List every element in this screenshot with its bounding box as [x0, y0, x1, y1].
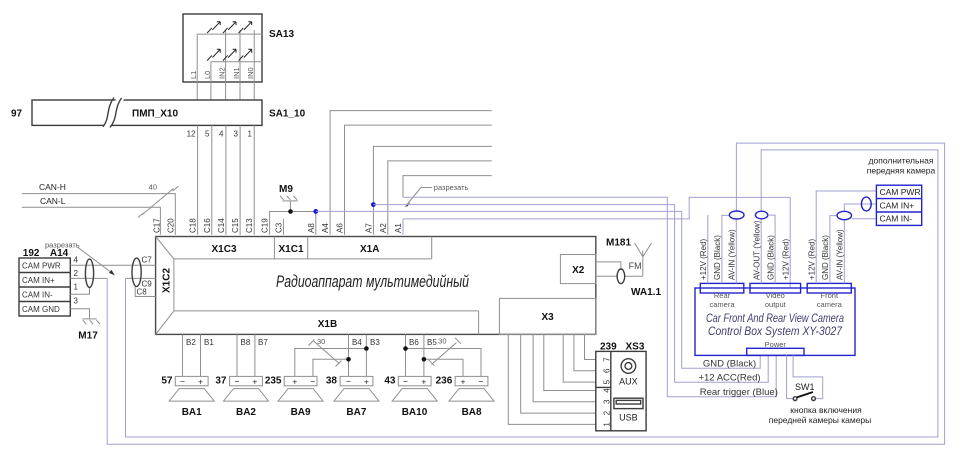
svg-text:IN1: IN1 [232, 67, 241, 79]
svg-text:разрезать: разрезать [45, 241, 80, 250]
svg-text:38: 38 [326, 376, 338, 387]
wire A8 [315, 211, 317, 234]
node B6 junction [403, 346, 408, 351]
svg-text:4: 4 [219, 130, 224, 139]
wire rear AV-IN [735, 219, 737, 283]
svg-text:M181: M181 [606, 238, 631, 249]
label additional front camera [867, 156, 936, 176]
connector X3 [499, 298, 595, 334]
wire video output route (C9 to control box AV-OUT) [126, 150, 938, 437]
wire CAM PWR to C7 [70, 264, 155, 266]
svg-text:B1: B1 [204, 338, 214, 347]
svg-text:L1: L1 [189, 71, 198, 79]
svg-text:−: − [346, 376, 351, 386]
svg-text:5: 5 [205, 130, 210, 139]
connector power [747, 340, 804, 355]
label razrezat top [405, 183, 469, 207]
svg-text:X1B: X1B [318, 319, 337, 330]
svg-text:Control Box System XY-3027: Control Box System XY-3027 [708, 326, 843, 338]
svg-text:CAM PWR: CAM PWR [880, 187, 921, 197]
svg-text:30: 30 [438, 337, 446, 346]
switch block SA13 [183, 14, 294, 82]
svg-text:A8: A8 [307, 223, 316, 233]
svg-text:C18: C18 [189, 218, 198, 233]
wire X3 pin to XS3 pin7 [585, 334, 596, 359]
wire A7 cut [373, 146, 491, 234]
svg-text:1: 1 [74, 283, 79, 292]
wire GND route A8 to control box power [316, 211, 760, 368]
svg-text:GND (Black): GND (Black) [703, 358, 756, 369]
svg-text:Car Front And Rear View Camera: Car Front And Rear View Camera [706, 313, 844, 325]
multimedia radio unit box [156, 237, 596, 335]
node A8 tap [313, 209, 318, 214]
svg-text:BA7: BA7 [346, 407, 366, 418]
svg-text:BA9: BA9 [291, 407, 311, 418]
svg-text:BA1: BA1 [182, 407, 202, 418]
node B5 junction [422, 357, 427, 362]
twisted pair marker 30 right [429, 337, 462, 366]
wire A4 cut [330, 111, 492, 235]
svg-text:X1C1: X1C1 [278, 244, 303, 255]
wire B5 tap to BA8 plus [424, 359, 463, 376]
svg-text:output: output [765, 300, 787, 309]
speaker BA10 [384, 376, 437, 419]
svg-text:CAM PWR: CAM PWR [22, 261, 61, 270]
svg-text:+: + [292, 376, 297, 386]
switch contact SA13 top row 1 [207, 22, 220, 33]
svg-text:40: 40 [149, 183, 157, 192]
wire X3 pin to XS3 pin1 [508, 334, 596, 424]
svg-text:IN0: IN0 [246, 67, 255, 79]
svg-text:192: 192 [23, 248, 40, 259]
svg-text:X2: X2 [572, 265, 585, 276]
wire C3 stub [282, 219, 284, 235]
svg-text:передней камеры камеры: передней камеры камеры [769, 415, 872, 425]
camera connector A14 [19, 258, 70, 316]
node A7 tap [371, 202, 376, 207]
wire rear camera video route (A14 to control box AV-IN) [107, 143, 944, 444]
svg-text:SA1_10: SA1_10 [269, 109, 306, 120]
connector plug FM ellipse [617, 269, 625, 284]
svg-text:CAM GND: CAM GND [22, 305, 60, 314]
svg-text:GND (Black): GND (Black) [821, 235, 830, 280]
svg-text:дополнительная: дополнительная [869, 156, 934, 166]
svg-text:WA1.1: WA1.1 [631, 287, 661, 298]
wire CAN-L to C17 [22, 207, 161, 235]
svg-text:236: 236 [436, 376, 453, 387]
wire IN1 [239, 30, 241, 100]
antenna WA1.1 [635, 243, 652, 276]
svg-text:BA10: BA10 [402, 407, 428, 418]
wire CAM GND to M17 [70, 309, 89, 319]
svg-text:57: 57 [161, 376, 173, 387]
wire B7 to BA2 [254, 334, 256, 376]
svg-text:+12V (Red): +12V (Red) [781, 239, 790, 280]
svg-text:B4: B4 [352, 338, 362, 347]
svg-text:+12V (Red): +12V (Red) [807, 239, 816, 280]
label razrezat left [45, 241, 115, 276]
connector rear camera [700, 283, 744, 309]
wire rear +12V stub [707, 215, 709, 283]
svg-text:BA8: BA8 [462, 407, 482, 418]
svg-text:IN2: IN2 [218, 67, 227, 79]
speaker BA8 [436, 376, 494, 419]
svg-text:C16: C16 [203, 218, 212, 233]
svg-text:3: 3 [74, 297, 79, 306]
svg-text:−: − [403, 376, 408, 386]
ground M9 [279, 184, 298, 211]
svg-text:A6: A6 [336, 223, 345, 233]
wire CAM IN- to plug shell [70, 288, 89, 295]
svg-text:XS3: XS3 [626, 342, 645, 353]
svg-text:C7: C7 [142, 256, 153, 265]
svg-text:кнопка включения: кнопка включения [790, 405, 862, 415]
wire C14 from PMP [225, 125, 227, 234]
twisted pair marker 40 [138, 183, 179, 218]
svg-text:B3: B3 [370, 338, 380, 347]
svg-text:12: 12 [187, 130, 196, 139]
wire B6 tap to BA8 minus [406, 349, 482, 377]
connector video output [750, 283, 801, 309]
svg-text:C8: C8 [137, 288, 148, 297]
svg-text:C20: C20 [167, 218, 176, 233]
svg-text:+: + [364, 376, 369, 386]
wire rear GND [722, 215, 730, 283]
svg-text:camera: camera [709, 300, 735, 309]
wire front AV plug to CAM IN+ [844, 204, 876, 211]
svg-text:+: + [252, 376, 257, 386]
svg-text:7: 7 [603, 357, 612, 362]
svg-text:1: 1 [603, 422, 612, 427]
wire antenna plug to antenna [625, 275, 643, 277]
svg-text:30: 30 [317, 337, 325, 346]
svg-text:5: 5 [603, 379, 612, 384]
switch contact SA13 top row 3 [239, 22, 252, 33]
wire X2 shield to antenna plug [596, 275, 617, 277]
svg-text:C17: C17 [153, 218, 162, 233]
connector plug front AV ellipse [837, 211, 851, 219]
svg-text:C15: C15 [231, 218, 240, 233]
svg-text:FM: FM [629, 261, 642, 271]
svg-text:4: 4 [603, 388, 612, 393]
wire C16 from PMP [211, 125, 213, 234]
AUX jack [619, 359, 638, 387]
svg-text:4: 4 [74, 256, 79, 265]
connector XS3 [596, 342, 646, 431]
additional front camera box [876, 185, 921, 225]
svg-text:+: + [198, 376, 203, 386]
connector PMP_X10 [32, 97, 262, 127]
wire +12V feed A1 pin to video connector [403, 197, 790, 288]
svg-text:camera: camera [817, 300, 843, 309]
switch SW1 [793, 382, 815, 401]
wire CAM IN- to plug shell [852, 218, 877, 220]
wire B5 to BA10 [423, 334, 425, 376]
camera control box XY-3027 [695, 288, 855, 355]
svg-text:BA2: BA2 [236, 407, 256, 418]
svg-text:3: 3 [603, 399, 612, 404]
wire A6 cut [345, 125, 492, 235]
svg-text:CAM IN-: CAM IN- [22, 290, 53, 299]
wire L1 [196, 34, 198, 100]
svg-text:3: 3 [234, 130, 239, 139]
svg-text:−: − [180, 376, 185, 386]
connector X2 [560, 255, 596, 284]
svg-text:2: 2 [74, 269, 79, 278]
wire CAM IN+ A14 side [70, 277, 107, 279]
wire X3 pin to XS3 pin5 [563, 334, 596, 382]
svg-text:37: 37 [215, 376, 227, 387]
svg-text:+12 ACC(Red): +12 ACC(Red) [698, 373, 760, 384]
svg-text:M17: M17 [78, 331, 98, 342]
switch contact SA13 bottom row 1 [207, 49, 220, 60]
svg-text:разрезать: разрезать [434, 183, 469, 192]
node B3 junction [364, 346, 369, 351]
svg-text:C14: C14 [217, 218, 226, 233]
svg-text:B8: B8 [241, 338, 251, 347]
svg-text:CAM IN-: CAM IN- [880, 214, 913, 224]
svg-text:B5: B5 [427, 338, 437, 347]
speaker BA9 [265, 376, 323, 419]
speaker BA7 [326, 376, 379, 419]
speaker BA1 [161, 376, 214, 419]
svg-text:SW1: SW1 [795, 382, 815, 392]
svg-text:B2: B2 [186, 338, 196, 347]
svg-text:C19: C19 [261, 218, 270, 233]
connector plug CAM IN+ ellipse [861, 197, 871, 211]
svg-text:CAN-H: CAN-H [39, 182, 66, 192]
wire C18 from PMP [197, 125, 199, 234]
svg-text:CAN-L: CAN-L [40, 196, 66, 206]
switch contact SA13 bottom row 2 [223, 49, 236, 60]
connector plug A14 ellipse [85, 259, 93, 287]
wire L0 bus [211, 61, 262, 63]
wire B2 to BA1 [182, 334, 184, 376]
svg-text:X1A: X1A [360, 244, 379, 255]
wire B3 to BA7 [365, 334, 367, 376]
wire C8 shield to connector [135, 287, 155, 297]
wire front AV-IN [843, 220, 845, 284]
wire front GND [830, 216, 837, 284]
wire power to SW1 right [793, 355, 823, 398]
wire B4 tap to BA9 minus [313, 359, 349, 376]
node M9-C19 junction [288, 209, 293, 214]
label front camera button [769, 405, 872, 425]
svg-text:−: − [479, 376, 484, 386]
wire B4 to BA7 [348, 334, 350, 376]
svg-text:+12V (Red): +12V (Red) [699, 239, 708, 280]
svg-text:1: 1 [248, 130, 253, 139]
speaker BA2 [215, 376, 268, 419]
svg-text:AUX: AUX [619, 377, 638, 387]
wire IN0 [253, 30, 255, 100]
switch contact SA13 top row 2 [223, 22, 236, 33]
svg-text:A1: A1 [394, 223, 403, 233]
USB port [614, 398, 643, 422]
svg-text:X1C3: X1C3 [211, 244, 236, 255]
wire X3 pin to XS3 pin2 [521, 334, 596, 413]
svg-text:X3: X3 [541, 312, 554, 323]
svg-text:−: − [235, 376, 240, 386]
svg-text:Rear: Rear [714, 291, 731, 300]
svg-text:2: 2 [603, 410, 612, 415]
svg-text:−: − [310, 376, 315, 386]
wire +12ACC route A7 to control box power [373, 205, 768, 383]
svg-text:A2: A2 [379, 223, 388, 233]
wire A1 harness cut [403, 176, 492, 198]
connector front camera [807, 283, 851, 309]
svg-text:+: + [461, 376, 466, 386]
svg-text:A7: A7 [364, 223, 373, 233]
svg-text:Video: Video [766, 291, 785, 300]
wire C9 radio side [126, 277, 156, 279]
wire L0 [210, 62, 212, 100]
wire C15 from PMP [239, 125, 241, 234]
svg-text:235: 235 [265, 376, 282, 387]
svg-text:239: 239 [600, 342, 617, 353]
svg-text:AV-OUT (Yellow): AV-OUT (Yellow) [752, 220, 761, 280]
svg-text:Rear trigger (Blue): Rear trigger (Blue) [700, 387, 778, 398]
wire B6 to BA10 [405, 334, 407, 376]
svg-text:CAM IN+: CAM IN+ [880, 200, 915, 210]
wire video AV-OUT [760, 219, 762, 284]
svg-text:B7: B7 [258, 338, 268, 347]
svg-text:Радиоаппарат мультимедийный: Радиоаппарат мультимедийный [276, 272, 469, 291]
wire C19 to M9 net [270, 212, 316, 235]
svg-text:USB: USB [619, 413, 638, 423]
svg-text:CAM IN+: CAM IN+ [22, 276, 55, 285]
svg-text:+: + [421, 376, 426, 386]
svg-text:6: 6 [603, 368, 612, 373]
switch contact SA13 bottom row 3 [239, 49, 252, 60]
svg-text:AV-IN (Yellow): AV-IN (Yellow) [728, 229, 737, 280]
svg-text:97: 97 [11, 109, 23, 120]
wire X3 pin to XS3 pin4 [544, 334, 596, 390]
wire L1 bus [197, 33, 262, 35]
svg-text:43: 43 [384, 376, 396, 387]
svg-text:X1C2: X1C2 [162, 268, 173, 293]
twisted pair marker 30 left [309, 337, 342, 367]
wire IN2 [225, 30, 227, 100]
wire video GND [768, 215, 775, 283]
connector plug rear AV ellipse [729, 211, 744, 219]
wire front +12V to CAM PWR [816, 191, 876, 283]
wire B1 to BA1 [200, 334, 202, 376]
connector plug C7-C9 ellipse [132, 258, 141, 286]
wire A1 pin stub [402, 219, 404, 235]
svg-text:SA13: SA13 [269, 29, 294, 40]
wire B8 to BA2 [236, 334, 238, 376]
wire X3 pin to XS3 pin3 [533, 334, 596, 401]
node B4 junction [346, 357, 351, 362]
svg-text:передняя камера: передняя камера [867, 166, 936, 176]
svg-text:C13: C13 [245, 218, 254, 233]
wire A2 cut [388, 161, 492, 235]
svg-text:L0: L0 [203, 71, 212, 79]
svg-text:Power: Power [765, 340, 787, 349]
wire C13 from PMP [253, 125, 255, 234]
svg-text:A14: A14 [50, 248, 69, 259]
svg-text:GND (Black): GND (Black) [766, 235, 775, 280]
svg-text:GND (Black): GND (Black) [713, 235, 722, 280]
svg-text:AV-IN (Yellow): AV-IN (Yellow) [836, 229, 845, 280]
svg-text:A4: A4 [321, 223, 330, 233]
wire rear trigger route A1 harness to control box power [403, 197, 776, 396]
svg-text:Front: Front [821, 291, 839, 300]
ground M17 [78, 319, 100, 342]
wire CAN-H to C20 [22, 194, 176, 235]
svg-text:C3: C3 [274, 222, 283, 233]
wire X2 to antenna plug top [596, 262, 621, 269]
connector plug video AV ellipse [755, 211, 767, 219]
wire X3 pin to XS3 pin6 [574, 334, 596, 370]
wire power to SW1 left [787, 355, 794, 398]
svg-text:ПМП_X10: ПМП_X10 [132, 109, 178, 120]
svg-text:B6: B6 [409, 338, 419, 347]
svg-text:M9: M9 [279, 184, 293, 195]
wire B3 tap to BA9 plus [295, 349, 367, 377]
